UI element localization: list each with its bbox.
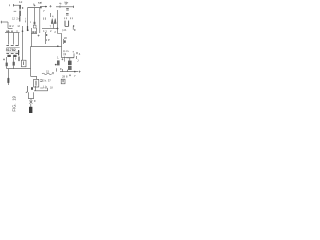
resistor R3 body: [13, 62, 15, 66]
connector block row2b marks: [6, 47, 19, 49]
node plus R3: [15, 57, 17, 59]
svg-text:7: 7: [43, 9, 45, 13]
svg-text:12: 12: [12, 16, 15, 20]
svg-text:7: 7: [50, 25, 52, 29]
node plus mark: [34, 5, 36, 7]
svg-text:4: 4: [79, 52, 81, 56]
node plus Q4: [62, 58, 64, 60]
node plus small: [69, 74, 71, 76]
inductor L1 bottom joint: [65, 25, 69, 27]
node arrow dot: [45, 6, 47, 8]
wire long vertical x57.5 upper: [57, 10, 59, 34]
svg-text:18: 18: [50, 87, 53, 90]
svg-text:2 P: 2 P: [46, 38, 50, 42]
connector block row4 squares: [7, 55, 10, 57]
node marks near x44 y18: [44, 17, 46, 19]
component crystal box X1: [61, 79, 65, 84]
node dot on rail: [74, 71, 76, 73]
wire vertical at x20: [19, 9, 21, 11]
resistor R7 body lower: [68, 66, 72, 70]
label L. corner: [72, 25, 74, 27]
component spark gap X2: [29, 101, 32, 104]
resistor R2 lead: [6, 57, 8, 63]
svg-text:t: t: [25, 16, 26, 20]
node dot on x22.5: [22, 30, 24, 32]
inductor L1 bar right: [68, 21, 70, 27]
wire bottom rail y71.5: [60, 71, 78, 73]
wire below B3: [30, 99, 32, 101]
capacitor C4 blob: [34, 22, 36, 25]
label L mark: [72, 26, 74, 29]
svg-text:7: 7: [74, 74, 76, 78]
svg-text:12: 12: [19, 0, 23, 4]
node plus 3: [16, 30, 18, 32]
svg-text:28 8: 28 8: [62, 74, 68, 78]
diode D1 blob: [64, 40, 66, 42]
component box B3: [28, 92, 33, 98]
connector block row1 marks: [6, 45, 18, 47]
node marks above L1: [65, 17, 72, 19]
wire tick x64.5: [64, 57, 66, 62]
node plus end rail: [79, 71, 81, 73]
wire vertical from rail B right leg: [34, 8, 36, 22]
diode D1 body: [63, 39, 65, 44]
wire tick up x67.5: [67, 70, 69, 72]
wire top rail segment A: [14, 4, 22, 6]
resistor R6 body upper: [68, 61, 72, 65]
component B1 inner mark: [23, 61, 25, 65]
wire bus vertical 3: [18, 33, 20, 46]
wire bus vertical 1: [8, 33, 10, 45]
battery BT1 solid body: [29, 107, 32, 113]
node dots right of X2: [34, 100, 35, 101]
wire horizontal y68.5: [7, 68, 31, 70]
component box small x34: [33, 25, 36, 28]
wire long horizontal y46.5: [30, 46, 61, 48]
wire vertical x31.5 below box: [30, 34, 32, 47]
wire top of R6: [66, 58, 74, 61]
wire y28.5 mid: [42, 28, 48, 30]
wire jog x57.5 to x61.5: [58, 34, 62, 47]
node plus under box: [38, 35, 40, 37]
component B2 inner mark: [35, 81, 37, 86]
wavy line resistor R5: [42, 73, 52, 74]
label equals right of B2: [40, 80, 42, 82]
node plus end of wave: [52, 72, 54, 74]
wire transistor emitter down: [53, 24, 55, 29]
svg-text:st: st: [40, 0, 42, 4]
wire vertical x40 from rail: [39, 8, 41, 17]
node marks x63-66 y52: [64, 53, 66, 56]
wire vertical x50.5: [50, 13, 52, 17]
node plus T3: [49, 5, 51, 7]
wire corner to box B2: [31, 76, 37, 79]
transistor Q4 cluster body: [57, 60, 60, 65]
svg-text:51782: 51782: [6, 48, 16, 52]
svg-text:4: 4: [52, 15, 54, 19]
component U1 inner marks: [32, 31, 33, 33]
svg-text:t2 2: t2 2: [9, 24, 14, 28]
wire vertical from rail B left leg: [27, 8, 29, 17]
node plus row above left rail: [6, 30, 8, 32]
wire tick x76.5: [76, 56, 78, 59]
label 3 blob below block: [18, 57, 20, 62]
node plus near x25.5: [25, 20, 27, 22]
resistor R3 lead: [13, 56, 15, 62]
wire y90.5 leader: [34, 88, 48, 91]
wire to battery: [30, 104, 32, 107]
wire vertical x8.5 down: [8, 69, 10, 78]
wire long vertical x22.5: [22, 26, 24, 60]
transistor Q4 arrow: [55, 64, 57, 66]
wire vertical x30.5 long: [30, 47, 32, 77]
wire top rail segment B: [28, 7, 42, 9]
capacitor C1 body: [19, 5, 21, 9]
inductor L1 bar left: [64, 21, 66, 27]
node junction dot y45.5: [57, 45, 59, 47]
transistor Q2 triangle right: [54, 19, 56, 24]
wire left y28 stub: [8, 27, 13, 29]
wire tick x35.5: [35, 86, 37, 91]
svg-text:1.: 1.: [57, 55, 59, 59]
wire riser x74: [73, 53, 75, 57]
transistor Q1 triangle left: [51, 19, 53, 24]
svg-text:t: t: [30, 20, 31, 24]
node speck left of T1: [9, 4, 11, 6]
wire horizontal y57.5: [62, 57, 75, 59]
node terminal left input: [1, 21, 3, 24]
component X1 inner: [62, 80, 64, 82]
svg-text:s: s: [73, 50, 75, 54]
wire Q4 emitter: [56, 68, 58, 71]
wire left input horizontal: [2, 21, 8, 23]
node terminal T2: [40, 6, 42, 9]
svg-text:19: 19: [12, 95, 17, 100]
wire vertical x40 segment2: [39, 17, 41, 33]
svg-text:tn tn.: tn tn.: [63, 49, 69, 53]
resistor R2 body: [6, 63, 8, 67]
wire vertical x61.5 to y57.5: [61, 46, 63, 57]
wire left rail y32.5: [5, 32, 20, 34]
node dot A: [22, 7, 23, 8]
node plus x8 y31: [7, 30, 9, 32]
wire tick up x62.5: [62, 69, 64, 72]
resistor R4 body: [7, 78, 9, 83]
wire bus vertical 2: [13, 33, 15, 45]
transistor Q3 lead: [45, 32, 47, 44]
wire R4 bottom lead: [7, 83, 9, 85]
label dashes y87.5: [40, 87, 47, 89]
node dash marks left of R1: [14, 10, 17, 12]
node plus mark on rail D: [59, 5, 61, 8]
wire R2 R3 join y68.5: [7, 66, 14, 69]
node plus R2: [3, 58, 5, 60]
capacitor C3 marks: [66, 14, 69, 15]
wire y28.5 left of junction: [48, 28, 57, 30]
component box U1: [32, 28, 37, 34]
svg-text:)JJ.: )JJ.: [62, 28, 67, 32]
wire top rail segment D: [56, 6, 73, 8]
resistor R1 body: [19, 11, 21, 16]
wire vertical x27.5 lower: [27, 17, 29, 31]
transistor Q5 lead hook: [26, 86, 28, 92]
node terminal T1: [13, 4, 15, 7]
connector block row3 marks: [6, 52, 18, 54]
svg-text:2: 2: [54, 30, 56, 34]
node plus 2: [11, 30, 13, 32]
node terminal T4: [73, 6, 75, 8]
node plus x57.5 y28: [56, 27, 58, 29]
node dot end x27.5: [27, 29, 29, 31]
svg-text:15: 15: [46, 70, 49, 74]
svg-text:t2: t2: [18, 24, 21, 28]
svg-text:FIG.: FIG.: [12, 103, 17, 111]
svg-text:E b. 37: E b. 37: [42, 79, 51, 83]
svg-text:4r: 4r: [59, 1, 62, 5]
transistor Q3 body dot: [45, 34, 47, 36]
wire top rail segment C: [40, 6, 47, 8]
label 3 blob right of block: [18, 50, 20, 55]
svg-text:18: 18: [64, 36, 68, 40]
svg-text:2: 2: [50, 29, 52, 33]
resistor body on x27.5: [27, 26, 29, 30]
wire left input down: [7, 22, 9, 28]
component box B1: [21, 60, 26, 67]
svg-text:Ne: Ne: [65, 1, 69, 5]
svg-text:J: J: [77, 58, 79, 62]
node dot x73.5: [73, 25, 74, 26]
capacitor C2 marks: [66, 9, 69, 10]
node plus right cluster: [76, 52, 78, 54]
component box B2: [34, 79, 39, 87]
svg-text:3: 3: [45, 29, 47, 33]
wire vertical x19.5 dark: [19, 16, 21, 22]
node dots under Q4: [60, 68, 61, 69]
node dot right: [74, 29, 75, 30]
node blob right: [31, 87, 33, 90]
